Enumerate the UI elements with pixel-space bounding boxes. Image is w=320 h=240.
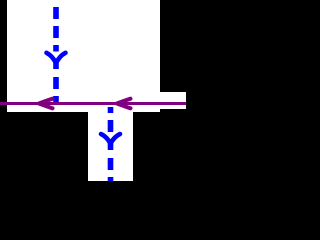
background canvas	[0, 0, 186, 181]
arrow on boson line B2 (downward)	[101, 134, 120, 144]
white backing band right of fermion line	[160, 92, 186, 109]
boson line B1 (top dashed scalar propagator)	[53, 7, 59, 103]
arrowhead A1 on fermion line (left-pointing)	[39, 99, 53, 109]
white backing panel upper	[7, 0, 160, 112]
arrow on boson line B1 (downward)	[47, 53, 66, 63]
white backing panel lower	[88, 112, 133, 181]
boson line B2 (bottom dashed scalar propagator)	[108, 107, 114, 181]
fermion line F1 (horizontal)	[0, 102, 186, 105]
arrowhead A2 on fermion line (left-pointing)	[117, 99, 131, 109]
